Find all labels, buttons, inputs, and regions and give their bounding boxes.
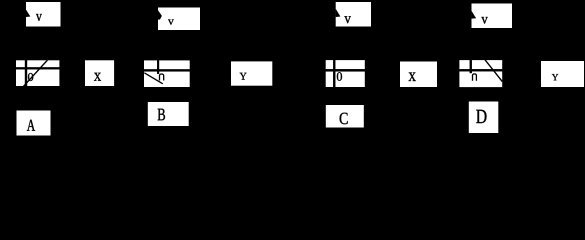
option B: glyph n (160, 74, 164, 81)
option B: label y (240, 73, 247, 80)
option D: node box (459, 60, 502, 87)
option A: node vertical divider (25, 60, 27, 86)
option D: box y (541, 61, 584, 87)
option D: node horizontal divider (459, 69, 502, 71)
option C: node vertical divider (333, 60, 335, 87)
option A: letter A (27, 120, 35, 131)
option B: arrowhead into box v (158, 11, 162, 20)
option D: answer box (469, 102, 499, 134)
option A: label v (36, 14, 42, 21)
option C: label x (409, 73, 416, 82)
option B: answer box (148, 102, 189, 126)
option A: node horizontal divider (16, 67, 59, 69)
option C: digit 0 (337, 72, 342, 81)
option A: node box (16, 60, 59, 86)
option D: null slash (485, 60, 502, 82)
option D: label y (552, 74, 558, 80)
option D: node vertical divider (470, 60, 472, 73)
option A: box v (26, 2, 61, 27)
option C: label v (344, 16, 351, 23)
option B: box y (231, 61, 272, 85)
option C: box v (336, 2, 371, 27)
option D: glyph n (473, 74, 477, 81)
option B: null slash (144, 73, 163, 84)
option C: node box (326, 60, 365, 87)
option C: answer box (326, 105, 364, 128)
option C: letter C (340, 113, 348, 125)
option A: label x (94, 73, 101, 81)
option A: answer box (17, 111, 51, 136)
option B: label v (168, 20, 174, 25)
option C: box x (400, 62, 437, 88)
option D: letter D (476, 110, 486, 123)
option D: box v (472, 4, 513, 29)
option C: arrowhead into box v (336, 9, 340, 16)
option A: digit 0 (28, 73, 33, 81)
option B: node horizontal divider (144, 69, 190, 71)
option D: label v (481, 17, 487, 24)
option B: letter B (158, 109, 165, 121)
option B: node vertical divider (157, 60, 159, 73)
option B: node box (144, 60, 190, 87)
option D: arrowhead into box v (472, 11, 476, 18)
option C: node horizontal divider (326, 69, 365, 71)
option A: arrowhead into box v (26, 10, 30, 17)
option B: box v (158, 8, 200, 31)
option A: box x (85, 60, 114, 86)
